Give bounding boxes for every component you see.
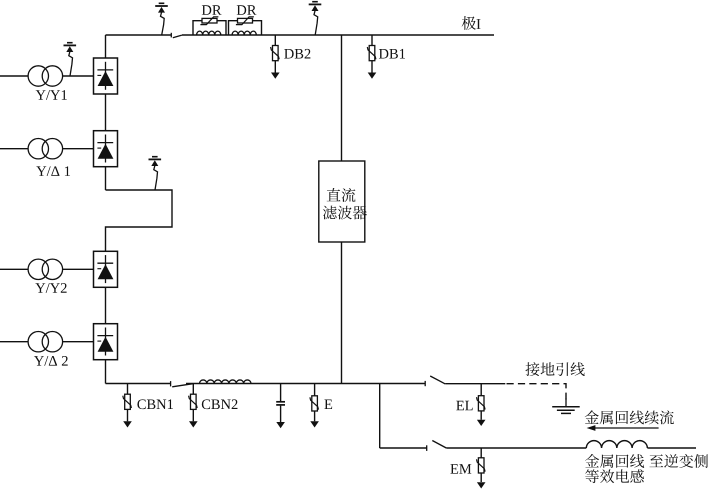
label 金属回线 (line1) xyxy=(585,454,644,468)
label DB2 xyxy=(284,49,310,59)
label Y/Y1 xyxy=(36,90,67,100)
label DR (right) xyxy=(237,5,257,15)
ground (station earth) xyxy=(552,407,580,414)
wire: neutral bus to EL switch xyxy=(186,383,425,385)
metallic return equivalent inductor xyxy=(586,441,647,448)
wire: metallic return line to EM switch xyxy=(380,447,427,449)
label 金属回线续流 xyxy=(585,410,674,424)
transformer T4 (two-winding) xyxy=(28,332,63,352)
disconnector switch on pole bus xyxy=(171,33,182,38)
wire: pole bus 极I (top DC bus) xyxy=(106,34,172,36)
surge arrester CBN1 xyxy=(123,384,132,428)
disconnector switch EL branch (grounding) xyxy=(425,376,445,386)
thyristor valve V1 xyxy=(94,58,118,94)
label EM xyxy=(450,464,471,473)
label CBN2 xyxy=(202,399,238,409)
label 等效电感 (line2) xyxy=(585,469,644,483)
disconnector switch EM branch (metallic return) xyxy=(427,441,447,451)
surge arrester DB1 xyxy=(367,35,376,79)
surge arrester DB2 xyxy=(271,35,280,79)
wire: neutral bus down to metallic-return branch xyxy=(379,384,381,449)
thyristor valve V4 xyxy=(94,324,118,360)
thyristor valve V2 xyxy=(94,131,118,167)
gap arrester to ground on pole bus (left) xyxy=(155,3,168,35)
label Y/Δ1 xyxy=(36,166,70,176)
annotation arrow: metallic return continuing current direction xyxy=(587,425,659,431)
smoothing reactor DR (left) (reactor + parallel varistor) xyxy=(193,17,226,35)
wire: metallic return line xyxy=(446,447,586,449)
surge arrester CBN2 xyxy=(189,384,198,428)
wire: AC feeder to transformer Y/Y2 xyxy=(0,268,28,270)
smoothing reactor DR (right) (reactor + parallel varistor) xyxy=(229,17,262,35)
wire: valve string to pole bus xyxy=(105,35,107,58)
wire: grounding lead branch xyxy=(445,383,505,385)
label E xyxy=(324,400,332,409)
wire: stem to station ground xyxy=(565,399,567,407)
label Y/Y2 xyxy=(35,283,66,293)
surge arrester E xyxy=(310,384,319,428)
wire: valve V4 to neutral bus xyxy=(105,360,107,384)
label DB1 xyxy=(379,49,405,59)
transformer T2 (two-winding) xyxy=(28,139,63,159)
wire: AC feeder to transformer Y/Y1 xyxy=(0,75,28,77)
neutral bus smoothing inductor xyxy=(200,380,251,384)
wire: crossover jog between 12-pulse groups xyxy=(106,190,173,251)
wire: AC feeder to transformer Y/Δ1 xyxy=(0,148,28,150)
DC filter box xyxy=(319,161,365,242)
wire: neutral bus from valve string xyxy=(106,383,171,385)
label DR (left) xyxy=(202,5,222,15)
wire: valve V3 to V4 xyxy=(105,287,107,323)
surge arrester EM xyxy=(477,448,486,489)
wire: valve V1 to V2 xyxy=(105,94,107,131)
wire: metallic return line to inverter side xyxy=(647,447,696,449)
wire: transformer Y/Δ2 to valve xyxy=(63,341,94,343)
label 极I (pole 1) - I xyxy=(477,19,481,29)
surge arrester EL xyxy=(477,384,486,426)
label DC filter line1 直流 xyxy=(327,188,356,202)
label 极I (pole 1) - 极 xyxy=(462,16,476,30)
capacitor to ground on neutral bus xyxy=(276,384,285,429)
disconnector switch on neutral bus xyxy=(171,381,193,387)
transformer T1 (two-winding) xyxy=(28,66,63,86)
dashed wire: 接地引线 grounding lead xyxy=(507,384,567,400)
label CBN1 xyxy=(137,399,173,409)
wire: transformer Y/Y2 to valve xyxy=(63,268,94,270)
thyristor valve V3 xyxy=(94,251,118,287)
transformer T3 (two-winding) xyxy=(28,259,63,279)
label EL xyxy=(456,401,472,410)
label 至逆变侧 (to inverter side) xyxy=(649,454,708,468)
wire: pole bus continues to line end xyxy=(182,34,494,36)
wire: transformer Y/Δ1 to valve xyxy=(63,148,94,150)
wire: DC filter down to neutral bus xyxy=(341,242,343,384)
gap arrester to ground on pole bus (right) xyxy=(309,2,322,35)
wire: pole bus down to DC filter xyxy=(341,35,343,161)
wire: AC feeder to transformer Y/Δ2 xyxy=(0,341,28,343)
label 接地引线 (grounding lead) xyxy=(525,362,584,376)
wire: transformer Y/Y1 to valve xyxy=(63,75,94,77)
gap arrester to ground on crossover xyxy=(149,157,162,190)
gap arrester to ground on Y/Y1 valve side xyxy=(64,43,77,76)
wire: valve V2 down to crossover xyxy=(105,167,107,190)
label Y/Δ2 xyxy=(34,356,68,366)
label DC filter line2 滤波器 xyxy=(323,206,367,220)
